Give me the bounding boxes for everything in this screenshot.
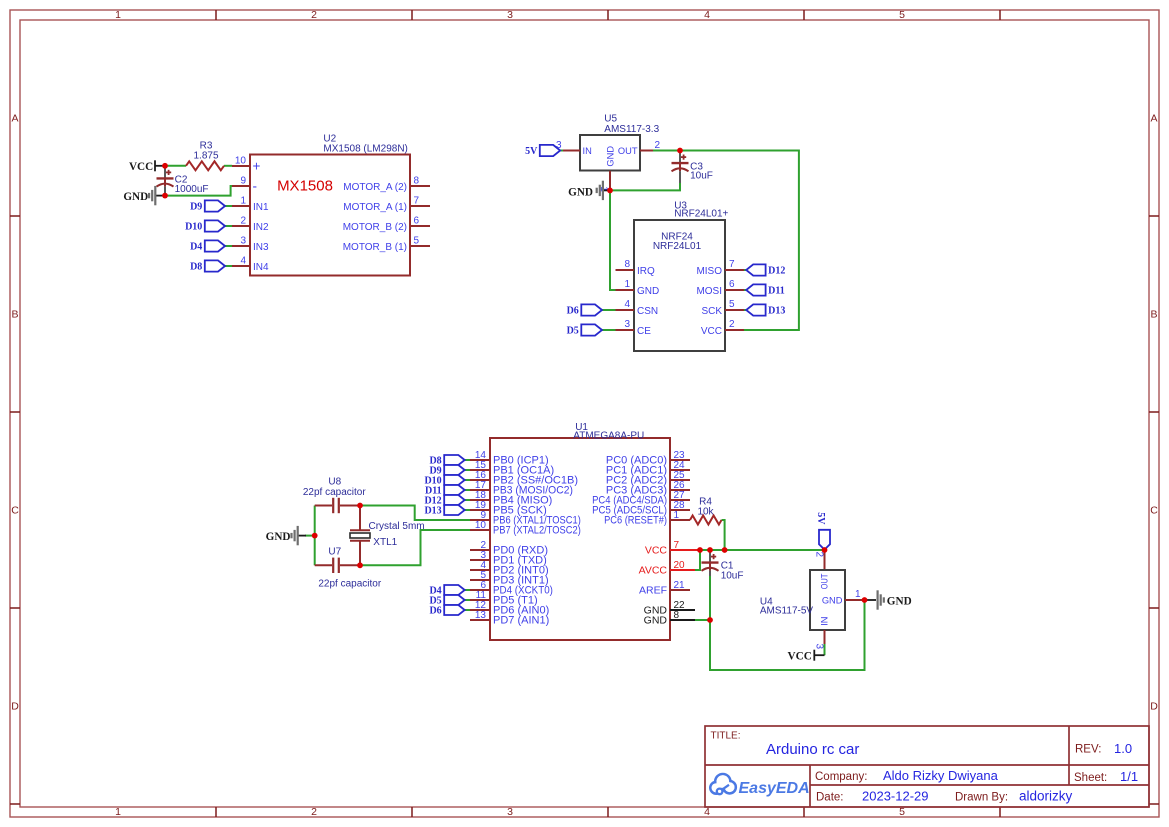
- port flag D8: [190, 260, 232, 272]
- power flag VCC (U4 bottom): [788, 650, 825, 663]
- wire GND flag to rail: [305, 535, 315, 537]
- svg-text:1: 1: [855, 589, 861, 600]
- port flag D10 (U1): [424, 475, 470, 486]
- svg-text:MX1508 (LM298N): MX1508 (LM298N): [323, 144, 407, 155]
- svg-text:D6: D6: [567, 305, 579, 316]
- svg-text:D5: D5: [567, 325, 579, 336]
- svg-text:MOTOR_B (2): MOTOR_B (2): [343, 222, 407, 233]
- port flag D6: [567, 304, 616, 316]
- svg-text:6: 6: [729, 279, 735, 290]
- capacitor U8 22pf: [303, 476, 366, 513]
- svg-text:VCC: VCC: [129, 161, 153, 173]
- svg-text:4: 4: [240, 256, 246, 267]
- svg-text:22pf capacitor: 22pf capacitor: [318, 578, 381, 589]
- svg-text:GND: GND: [123, 191, 148, 203]
- svg-text:AMS117-5V: AMS117-5V: [760, 606, 814, 617]
- svg-text:-: -: [253, 178, 258, 193]
- svg-text:IN: IN: [583, 146, 592, 156]
- port flag D9: [190, 200, 232, 212]
- svg-text:2: 2: [311, 9, 317, 21]
- ground GND (top-left): [123, 186, 163, 205]
- svg-text:IN4: IN4: [253, 262, 269, 273]
- resistor R4 10k: [670, 497, 722, 525]
- svg-text:MOTOR_A (1): MOTOR_A (1): [343, 202, 407, 213]
- port flag D9 (U1): [429, 465, 470, 476]
- svg-text:2: 2: [311, 806, 317, 818]
- op-amp U2 MX1508 (LM298N): [232, 133, 430, 275]
- regulator U4 AMS117-5V: [760, 550, 865, 650]
- IC U1 ATMEGA8A-PU: [470, 422, 700, 640]
- svg-text:2: 2: [729, 319, 735, 330]
- wire AVCC to VCC net: [695, 550, 700, 570]
- wire XTAL top to U1 PB6: [360, 506, 470, 521]
- svg-text:2: 2: [655, 140, 661, 151]
- svg-text:D8: D8: [190, 261, 202, 272]
- svg-text:OUT: OUT: [819, 574, 830, 590]
- wire VCC node to R3: [165, 165, 186, 167]
- svg-text:ATMEGA8A-PU: ATMEGA8A-PU: [573, 431, 644, 442]
- wire R4 to VCC net: [722, 520, 725, 550]
- svg-text:REV:: REV:: [1075, 743, 1101, 755]
- svg-text:21: 21: [674, 580, 686, 591]
- svg-text:10k: 10k: [697, 506, 714, 517]
- svg-text:VCC: VCC: [645, 545, 668, 557]
- ground GND (U5): [568, 181, 608, 200]
- port flag D13: [744, 304, 785, 316]
- svg-text:1: 1: [115, 9, 121, 21]
- port flag D4 (U1): [429, 585, 470, 596]
- svg-text:A: A: [1150, 113, 1157, 125]
- svg-text:AMS117-3.3: AMS117-3.3: [604, 124, 659, 135]
- port flag D8 (U1): [429, 455, 470, 466]
- svg-text:4: 4: [704, 806, 710, 818]
- svg-text:Sheet:: Sheet:: [1074, 772, 1107, 784]
- svg-text:Company:: Company:: [815, 771, 867, 783]
- svg-text:A: A: [11, 113, 18, 125]
- port flag 5V (U5 input): [525, 145, 563, 157]
- svg-text:3: 3: [624, 319, 630, 330]
- wire crystal GND rail (left vertical): [314, 506, 316, 566]
- node R4 junction: [722, 547, 728, 553]
- wire GND loop to U4 GND: [710, 600, 865, 670]
- svg-text:SCK: SCK: [701, 306, 722, 317]
- svg-text:MOTOR_A (2): MOTOR_A (2): [343, 182, 407, 193]
- wire R3 to U2 pin 10: [224, 165, 232, 167]
- svg-text:5V: 5V: [525, 146, 538, 157]
- svg-text:4: 4: [704, 9, 710, 21]
- port flag D12 (U1): [424, 495, 470, 506]
- node U5 GND junction: [607, 188, 613, 194]
- port flag D5: [567, 324, 616, 336]
- svg-text:13: 13: [475, 610, 487, 621]
- svg-text:3: 3: [507, 9, 513, 21]
- svg-text:4: 4: [624, 299, 630, 310]
- svg-text:Date:: Date:: [816, 792, 844, 804]
- svg-text:PC6 (RESET#): PC6 (RESET#): [604, 515, 667, 527]
- svg-text:Drawn By:: Drawn By:: [955, 792, 1008, 804]
- wire C1 bottom to GND8: [709, 576, 711, 620]
- svg-text:U8: U8: [328, 476, 341, 487]
- capacitor C2 1000uF: [157, 166, 209, 196]
- svg-text:XTL1: XTL1: [373, 537, 397, 548]
- svg-text:3: 3: [240, 236, 246, 247]
- svg-text:AVCC: AVCC: [639, 565, 668, 577]
- IC U3 NRF24L01+: [616, 201, 745, 351]
- node C1 top junction: [707, 547, 713, 553]
- svg-text:NRF24L01: NRF24L01: [653, 241, 702, 252]
- svg-text:1: 1: [240, 196, 246, 207]
- wire GND net to NRF24 GND pin: [610, 190, 617, 290]
- svg-text:1.875: 1.875: [193, 151, 218, 162]
- port flag D10: [185, 220, 232, 232]
- port flag D5 (U1): [429, 595, 470, 606]
- EasyEDA logo: [710, 774, 809, 797]
- svg-text:D: D: [11, 701, 19, 713]
- svg-text:7: 7: [729, 259, 735, 270]
- svg-text:1000uF: 1000uF: [175, 184, 209, 195]
- svg-text:MOSI: MOSI: [696, 286, 722, 297]
- wire U2 pin 9 to GND net: [165, 186, 232, 196]
- svg-text:3: 3: [556, 140, 562, 151]
- svg-text:Arduino rc car: Arduino rc car: [766, 741, 859, 758]
- wire U1 VCC net: [700, 549, 825, 551]
- svg-text:OUT: OUT: [618, 146, 638, 156]
- svg-text:NRF24L01+: NRF24L01+: [674, 208, 728, 219]
- svg-text:C: C: [1150, 505, 1158, 517]
- svg-text:9: 9: [240, 176, 246, 187]
- node crystal GND junction: [312, 533, 318, 539]
- svg-text:PD7 (AIN1): PD7 (AIN1): [493, 615, 549, 627]
- svg-text:GND: GND: [887, 595, 912, 607]
- svg-text:3: 3: [813, 644, 824, 650]
- svg-text:1: 1: [115, 806, 121, 818]
- port flag D11: [744, 284, 785, 296]
- wire XTAL bottom to U1 PB7: [360, 530, 470, 565]
- svg-text:5: 5: [899, 9, 905, 21]
- svg-text:MISO: MISO: [696, 266, 722, 277]
- svg-text:20: 20: [674, 560, 686, 571]
- port flag D12: [744, 264, 785, 276]
- node U5 OUT / C3 junction: [677, 148, 683, 154]
- svg-text:+: +: [253, 158, 261, 173]
- svg-text:5: 5: [899, 806, 905, 818]
- svg-text:VCC: VCC: [788, 651, 812, 663]
- svg-text:7: 7: [674, 540, 680, 551]
- svg-text:10: 10: [235, 156, 247, 167]
- svg-text:8: 8: [674, 610, 680, 621]
- svg-text:D9: D9: [190, 201, 202, 212]
- capacitor U7 22pf: [315, 547, 382, 590]
- svg-text:GND: GND: [644, 615, 668, 627]
- svg-text:D11: D11: [768, 285, 785, 296]
- node GND junction: [162, 193, 168, 199]
- capacitor C1 10uF: [702, 550, 744, 581]
- svg-text:B: B: [1150, 309, 1157, 321]
- svg-text:8: 8: [624, 259, 630, 270]
- node VCC pin7 junction: [697, 547, 703, 553]
- svg-text:3: 3: [507, 806, 513, 818]
- port flag D13 (U1): [424, 505, 470, 516]
- port flag D11 (U1): [425, 485, 470, 496]
- ground GND (crystal): [266, 526, 306, 545]
- svg-text:GND: GND: [822, 595, 843, 605]
- regulator U5 AMS117-3.3: [556, 114, 661, 193]
- svg-text:GND: GND: [637, 286, 659, 297]
- svg-text:6: 6: [414, 216, 420, 227]
- svg-text:7: 7: [414, 196, 420, 207]
- node 5V / U4 OUT junction: [822, 547, 828, 553]
- svg-text:8: 8: [414, 176, 420, 187]
- svg-text:1: 1: [624, 279, 630, 290]
- node GND8 / C1 bottom junction: [707, 617, 713, 623]
- svg-text:aldorizky: aldorizky: [1019, 789, 1073, 804]
- node XTAL bottom junction: [357, 562, 363, 568]
- capacitor C3 10uF: [672, 151, 713, 184]
- title block: [705, 726, 1149, 807]
- node XTAL top junction: [357, 503, 363, 509]
- svg-text:PB7 (XTAL2/TOSC2): PB7 (XTAL2/TOSC2): [493, 525, 581, 537]
- node U4 GND junction: [862, 597, 868, 603]
- svg-text:D10: D10: [185, 221, 202, 232]
- svg-text:D12: D12: [768, 265, 785, 276]
- wire U4 IN to VCC flag: [824, 644, 826, 655]
- port flag 5V (rotated, U4 OUT): [815, 512, 830, 549]
- svg-text:D6: D6: [429, 605, 441, 616]
- svg-text:CE: CE: [637, 326, 651, 337]
- svg-text:10uF: 10uF: [690, 170, 713, 181]
- svg-text:IRQ: IRQ: [637, 266, 655, 277]
- svg-text:GND: GND: [568, 187, 593, 199]
- svg-text:D4: D4: [190, 241, 202, 252]
- svg-text:VCC: VCC: [701, 326, 722, 337]
- crystal XTL1: [350, 506, 425, 566]
- svg-text:2: 2: [240, 216, 246, 227]
- svg-text:1/1: 1/1: [1120, 769, 1138, 784]
- svg-text:Aldo Rizky Dwiyana: Aldo Rizky Dwiyana: [883, 768, 999, 783]
- port flag D4: [190, 240, 232, 252]
- svg-text:D13: D13: [424, 505, 441, 516]
- svg-text:22pf capacitor: 22pf capacitor: [303, 487, 366, 498]
- svg-text:U7: U7: [328, 547, 341, 558]
- svg-text:IN2: IN2: [253, 222, 269, 233]
- svg-text:GND: GND: [606, 146, 616, 167]
- svg-text:MX1508: MX1508: [277, 178, 333, 195]
- svg-text:MOTOR_B (1): MOTOR_B (1): [343, 242, 407, 253]
- svg-text:5V: 5V: [815, 512, 826, 525]
- svg-text:5: 5: [414, 236, 420, 247]
- svg-text:IN: IN: [820, 616, 830, 625]
- svg-text:10uF: 10uF: [721, 570, 744, 581]
- power flag VCC (top-left): [129, 160, 163, 173]
- svg-text:AREF: AREF: [639, 585, 667, 597]
- svg-text:B: B: [11, 309, 18, 321]
- port flag D6 (U1): [429, 605, 470, 616]
- wire C3 bottom to GND net: [610, 183, 680, 190]
- svg-text:5: 5: [729, 299, 735, 310]
- wire U5 OUT to NRF24 VCC: [653, 151, 799, 331]
- svg-text:CSN: CSN: [637, 306, 658, 317]
- svg-text:10: 10: [475, 520, 487, 531]
- svg-text:2: 2: [813, 552, 824, 558]
- svg-text:C: C: [11, 505, 19, 517]
- svg-text:IN1: IN1: [253, 202, 269, 213]
- resistor R3: [186, 141, 224, 171]
- svg-text:TITLE:: TITLE:: [711, 731, 741, 742]
- svg-text:Crystal 5mm: Crystal 5mm: [369, 521, 425, 532]
- svg-text:D13: D13: [768, 305, 785, 316]
- svg-text:GND: GND: [266, 531, 291, 543]
- svg-text:IN3: IN3: [253, 242, 269, 253]
- svg-text:D: D: [1150, 701, 1158, 713]
- svg-text:EasyEDA: EasyEDA: [739, 780, 810, 797]
- ground GND (U4): [865, 590, 912, 609]
- node VCC junction: [162, 163, 168, 169]
- svg-text:2023-12-29: 2023-12-29: [862, 789, 929, 804]
- svg-text:1.0: 1.0: [1114, 741, 1132, 756]
